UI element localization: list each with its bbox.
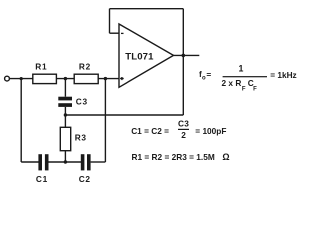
svg-text:R1: R1	[35, 62, 47, 72]
op-amp non-inverting pin plus	[120, 77, 124, 80]
op-amp U1 triangle	[119, 24, 174, 87]
wire C3 branch top	[64, 79, 66, 97]
wire elbow to inverting input	[110, 32, 119, 34]
wire input to R1	[10, 78, 33, 80]
wire R1 to R2	[56, 78, 74, 80]
node C3-R3 junction	[64, 113, 67, 116]
capacitor C3	[58, 97, 72, 107]
svg-text:2: 2	[181, 130, 186, 140]
wire output	[174, 54, 200, 56]
node R2 output junction	[104, 77, 107, 80]
node R1-R2 junction	[64, 77, 67, 80]
svg-text:C1 = C2 =: C1 = C2 =	[131, 126, 169, 136]
wire feedback top rail	[110, 8, 184, 10]
wire C3 to node A	[64, 107, 66, 127]
resistor R2	[74, 74, 98, 83]
wire R3 to bottom rail	[64, 151, 66, 162]
wire R2 to op-amp + input	[98, 78, 119, 80]
svg-text:R2: R2	[79, 62, 91, 72]
svg-text:1: 1	[239, 64, 244, 74]
svg-text:R3: R3	[75, 132, 87, 142]
wire feedback left vertical	[109, 9, 111, 34]
svg-text:R1 = R2 = 2R3 = 1.5M: R1 = R2 = 2R3 = 1.5M	[132, 152, 215, 162]
capacitor C2	[81, 154, 91, 170]
svg-text:C3: C3	[76, 97, 88, 107]
op-amp inverting pin minus	[121, 32, 124, 34]
svg-text:C3: C3	[178, 119, 189, 129]
junction dots	[20, 54, 186, 164]
wire left vertical	[20, 79, 22, 162]
input terminal	[5, 76, 10, 81]
wire bottom rail middle	[49, 161, 82, 163]
svg-text:C1: C1	[36, 174, 48, 184]
svg-text:F: F	[242, 87, 246, 93]
wire right vertical feedback	[182, 9, 184, 115]
svg-text:2 x R: 2 x R	[222, 78, 242, 88]
node op-amp output junction	[182, 54, 186, 58]
wire bottom rail left	[21, 161, 39, 163]
resistor R1	[33, 74, 57, 83]
resistor R3	[60, 127, 70, 150]
formula fraction bar	[223, 76, 267, 77]
capacitor C1	[38, 154, 48, 170]
wire bottom rail right	[91, 161, 106, 163]
svg-text:= 100pF: = 100pF	[195, 126, 226, 136]
equation line C1 C2	[131, 119, 226, 140]
svg-text:TL071: TL071	[125, 52, 154, 63]
node input junction	[20, 77, 23, 80]
svg-text:o: o	[202, 76, 206, 82]
wire feedback horizontal	[65, 114, 183, 116]
wire right mid vertical	[104, 79, 106, 162]
svg-text:F: F	[253, 87, 257, 93]
node R3 bottom junction	[64, 160, 67, 163]
formula fo	[199, 64, 297, 93]
svg-text:= 1kHz: = 1kHz	[270, 70, 297, 80]
svg-text:=: =	[206, 70, 211, 80]
svg-text:Ω: Ω	[222, 152, 229, 162]
equation line R1 R2	[132, 152, 230, 162]
svg-text:C2: C2	[79, 174, 91, 184]
